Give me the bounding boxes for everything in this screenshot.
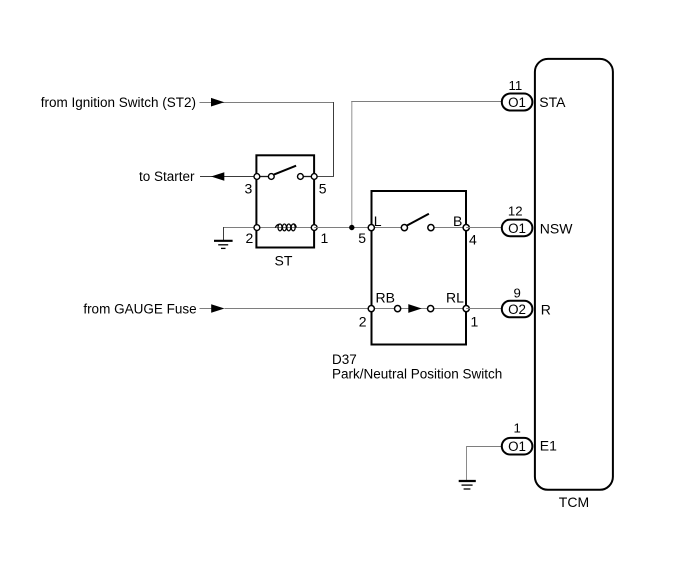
svg-text:B: B xyxy=(453,213,462,229)
pin number 9 xyxy=(514,285,521,300)
connector O2 pin 9 (R) xyxy=(502,301,533,318)
pin number 1 (E1) xyxy=(514,421,521,436)
net label R xyxy=(541,301,551,317)
pin number 2 (D37) xyxy=(359,314,367,330)
arrow from GAUGE Fuse xyxy=(211,304,224,313)
net label STA xyxy=(539,94,566,110)
svg-text:5: 5 xyxy=(319,181,327,197)
connector O1 pin 1 (E1) xyxy=(502,438,533,455)
switch D37 pin 2 terminal xyxy=(368,306,374,312)
pin number 4 (D37) xyxy=(469,232,477,248)
pin number 5 (D37) xyxy=(358,230,366,246)
svg-text:1: 1 xyxy=(321,230,329,246)
svg-text:4: 4 xyxy=(469,232,477,248)
svg-text:O1: O1 xyxy=(508,439,526,454)
arrow RB to RL inside D37 xyxy=(408,304,421,313)
svg-text:1: 1 xyxy=(514,421,521,436)
connector O1 pin 11 (STA) xyxy=(502,94,533,111)
wire: to Starter lead xyxy=(200,176,257,178)
wire: vertical from ignition line down to ST pin 5 xyxy=(333,102,335,177)
pin number 2 (ST) xyxy=(246,230,254,246)
wire: horizontal into ST pin 5 xyxy=(314,176,334,178)
svg-text:Park/Neutral Position Switch: Park/Neutral Position Switch xyxy=(332,367,502,382)
label: to Starter xyxy=(139,169,195,184)
svg-text:1: 1 xyxy=(471,314,479,330)
switch D37 pin 5 terminal xyxy=(368,225,374,231)
svg-text:11: 11 xyxy=(509,78,523,93)
switch D37 contact B fixed xyxy=(428,225,434,231)
wire: E1 connector to ground xyxy=(466,446,502,480)
switch D37 pin 1 terminal xyxy=(463,306,469,312)
svg-text:D37: D37 xyxy=(332,352,357,367)
label: from GAUGE Fuse xyxy=(83,302,196,317)
switch D37 contact L movable xyxy=(401,225,407,231)
svg-text:2: 2 xyxy=(246,230,254,246)
relay ST switch pivot contact xyxy=(268,174,274,180)
relay ST box xyxy=(256,155,314,247)
net label NSW xyxy=(540,220,573,236)
wire: STA horizontal to TCM xyxy=(351,101,501,103)
svg-text:L: L xyxy=(374,213,382,229)
net label L xyxy=(374,213,382,229)
svg-text:O1: O1 xyxy=(508,95,526,110)
svg-text:RL: RL xyxy=(446,290,464,306)
wire: D37 row1 internal left xyxy=(371,227,404,229)
wire: D37 row2 internal middle xyxy=(398,308,431,310)
relay ST pin 2 terminal xyxy=(254,225,260,231)
relay ST pin 3 terminal xyxy=(254,174,260,180)
label: from Ignition Switch (ST2) xyxy=(41,95,196,110)
wire: from GAUGE Fuse lead xyxy=(200,308,212,310)
arrow into circuit from ignition switch xyxy=(211,98,224,107)
wire: ST pin1 to D37 pin5 xyxy=(314,227,368,229)
svg-text:from Ignition Switch (ST2): from Ignition Switch (ST2) xyxy=(41,95,196,110)
wire: GAUGE fuse to D37 pin 2 xyxy=(225,308,372,310)
wire: D37 row2 internal right xyxy=(431,308,467,310)
svg-text:E1: E1 xyxy=(540,437,557,453)
pin number 1 (D37) xyxy=(471,314,479,330)
svg-text:2: 2 xyxy=(359,314,367,330)
pin number 11 xyxy=(509,78,523,93)
svg-text:9: 9 xyxy=(514,285,521,300)
switch D37 blade (L-B) xyxy=(407,214,429,226)
svg-text:NSW: NSW xyxy=(540,220,573,236)
label: ST xyxy=(275,253,293,269)
label: D37 xyxy=(332,352,357,367)
svg-text:ST: ST xyxy=(275,253,293,269)
svg-text:RB: RB xyxy=(376,290,395,306)
wire: D37 row2 internal left xyxy=(371,308,397,310)
relay ST switch blade xyxy=(274,166,296,175)
svg-text:3: 3 xyxy=(245,181,253,197)
arrow to Starter xyxy=(211,172,224,181)
svg-text:O1: O1 xyxy=(508,221,526,236)
net label RL xyxy=(446,290,464,306)
switch D37 pin 4 terminal xyxy=(463,225,469,231)
wire: D37 row1 internal right xyxy=(431,227,466,229)
wire: vertical junction to STA row xyxy=(351,101,353,228)
pin number 5 (ST) xyxy=(319,181,327,197)
wire: coil row inside ST xyxy=(257,227,315,229)
TCM box xyxy=(535,59,613,490)
ground (E1) xyxy=(459,481,476,489)
svg-text:to Starter: to Starter xyxy=(139,169,195,184)
pin number 1 (ST) xyxy=(321,230,329,246)
svg-text:R: R xyxy=(541,301,551,317)
svg-text:5: 5 xyxy=(358,230,366,246)
label: Park/Neutral Position Switch xyxy=(332,367,502,382)
ground (ST relay coil) xyxy=(214,227,257,248)
relay ST coil xyxy=(275,224,296,231)
switch D37 box xyxy=(372,191,467,345)
wire: D37 pin4 to NSW connector xyxy=(466,227,501,229)
wire: D37 pin1 to R connector xyxy=(466,308,501,310)
relay ST pin 5 terminal xyxy=(311,174,317,180)
wire: from Ignition Switch (ST2) horizontal xyxy=(200,102,334,104)
net label RB xyxy=(376,290,395,306)
node: junction dot xyxy=(349,225,354,230)
connector O1 pin 12 (NSW) xyxy=(502,220,533,237)
label: TCM xyxy=(559,494,589,510)
svg-text:O2: O2 xyxy=(508,302,526,317)
pin number 12 xyxy=(508,203,523,218)
net label B xyxy=(453,213,462,229)
svg-text:STA: STA xyxy=(539,94,566,110)
svg-text:12: 12 xyxy=(508,203,523,218)
relay ST switch fixed contact xyxy=(298,174,304,180)
pin number 3 (ST) xyxy=(245,181,253,197)
relay ST pin 1 terminal xyxy=(311,225,317,231)
relay ST switch contact wire xyxy=(257,176,315,178)
net label E1 xyxy=(540,437,557,453)
switch D37 contact RL xyxy=(428,306,434,312)
svg-text:TCM: TCM xyxy=(559,494,589,510)
svg-text:from GAUGE Fuse: from GAUGE Fuse xyxy=(83,302,196,317)
switch D37 contact RB xyxy=(395,306,401,312)
